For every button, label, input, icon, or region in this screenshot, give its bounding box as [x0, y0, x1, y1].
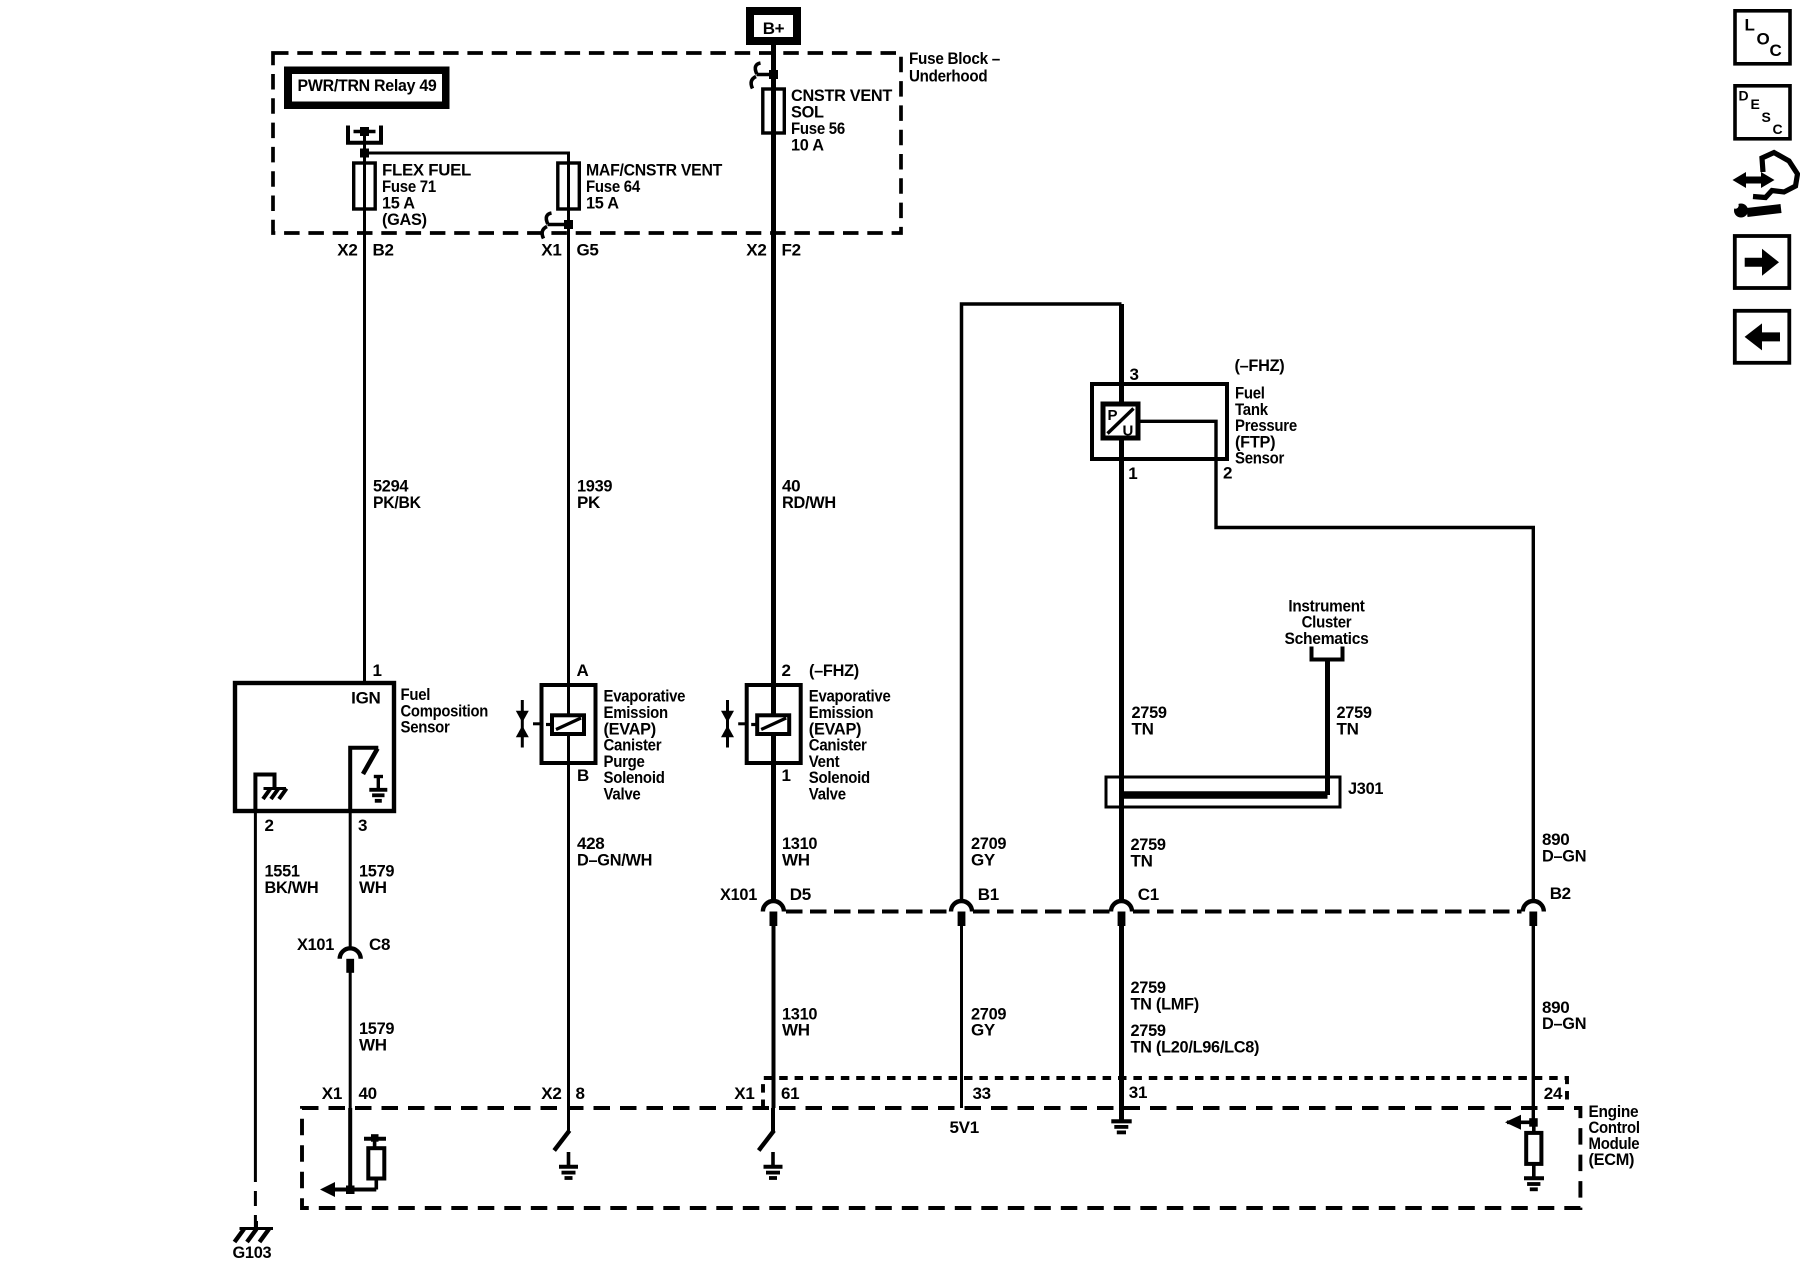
svg-text:RD/WH: RD/WH [782, 493, 836, 512]
vent valve symbol [721, 700, 747, 748]
wire 890 D-GN lower [1532, 926, 1535, 1122]
ECM pin X1 61 labels [734, 1084, 799, 1103]
wire 1551 BK/WH solid part [254, 811, 257, 1167]
svg-text:E: E [1751, 96, 1760, 112]
svg-text:31: 31 [1129, 1083, 1147, 1102]
svg-text:U: U [1123, 423, 1134, 440]
label 428 D-GN/WH [577, 834, 652, 870]
svg-text:Fuse Block –: Fuse Block – [909, 49, 1000, 68]
label EVAP vent [809, 687, 891, 804]
svg-text:WH: WH [782, 1021, 810, 1040]
Fuel Composition Sensor box [235, 683, 394, 811]
svg-text:C8: C8 [369, 935, 390, 954]
fuse F64 MAF/CNSTR VENT [558, 163, 580, 209]
fuse block underhood dashed box [273, 53, 901, 233]
wire 2709 GY lower [960, 926, 963, 1108]
svg-text:GY: GY [971, 851, 996, 870]
svg-text:40: 40 [359, 1084, 377, 1103]
svg-text:B: B [577, 766, 589, 785]
svg-text:D–GN/WH: D–GN/WH [577, 851, 652, 870]
svg-text:S: S [1762, 109, 1771, 125]
connector X2 B2 labels [337, 241, 393, 260]
PWR/TRN Relay 49 label box [284, 67, 450, 110]
label 2759 TN middle [1131, 835, 1166, 871]
splice pack J301 [1106, 777, 1340, 807]
svg-text:TN: TN [1132, 720, 1154, 739]
svg-text:1: 1 [1128, 464, 1137, 483]
svg-text:G103: G103 [233, 1243, 272, 1262]
svg-text:(–FHZ): (–FHZ) [1235, 356, 1285, 375]
connector B2 [1523, 884, 1571, 926]
label EVAP purge [604, 687, 686, 804]
wire 1579 WH lower [349, 971, 352, 1108]
svg-text:A: A [577, 661, 589, 680]
label 1310 WH upper [782, 834, 817, 870]
svg-text:TN (L20/L96/LC8): TN (L20/L96/LC8) [1131, 1038, 1260, 1057]
wire 1551 dashed part to G103 [254, 1167, 257, 1236]
label Fuel Composition Sensor [401, 685, 489, 737]
svg-text:C: C [1770, 41, 1782, 60]
label 2759 TN upper right [1337, 703, 1372, 739]
relay contact PWR/TRN Relay 49 [348, 126, 381, 143]
svg-text:TN: TN [1131, 852, 1153, 871]
connector X1 G5 labels [541, 241, 598, 260]
label Engine Control Module (ECM) [1589, 1102, 1640, 1169]
svg-text:(–FHZ): (–FHZ) [809, 661, 859, 680]
svg-text:8: 8 [576, 1084, 585, 1103]
G103 chassis ground [235, 1221, 274, 1242]
svg-text:15 A: 15 A [586, 194, 619, 213]
svg-text:J301: J301 [1348, 779, 1383, 798]
wire B+ to fuse 56 (40 RD/WH feed) [771, 45, 776, 89]
wire bus junction to fuse 64 [365, 153, 569, 163]
wire 428 D-GN/WH [567, 763, 570, 1108]
label 890 D-GN lower [1542, 998, 1586, 1033]
sensor internal earth ground [369, 777, 387, 801]
svg-text:Valve: Valve [809, 785, 846, 804]
svg-text:WH: WH [782, 851, 810, 870]
label fuse 71 [382, 161, 471, 230]
svg-text:B2: B2 [1550, 884, 1571, 903]
label Fuse Block - Underhood [909, 49, 1000, 86]
svg-text:X1: X1 [322, 1084, 342, 1103]
svg-text:IGN: IGN [351, 689, 380, 708]
connector B1 [951, 885, 999, 926]
wire 5V reference loop top [962, 304, 1122, 901]
label 1579 WH lower [359, 1019, 394, 1055]
svg-text:F2: F2 [782, 241, 801, 260]
sensor internal chassis ground [263, 789, 287, 800]
svg-text:B+: B+ [763, 19, 785, 38]
ECM pin X1 40 labels [322, 1084, 377, 1103]
EVAP canister purge solenoid valve box [542, 685, 596, 763]
svg-text:Underhood: Underhood [909, 67, 987, 86]
fuse F56 CNSTR VENT SOL [763, 89, 785, 133]
connector X2 F2 labels [746, 241, 800, 260]
svg-text:D–GN: D–GN [1542, 1014, 1586, 1033]
label 2709 GY lower [971, 1004, 1006, 1039]
wire 1939 PK [567, 233, 570, 685]
vent solenoid wire through box [771, 685, 776, 763]
FTP pin 2 wire inside box [1138, 421, 1216, 459]
svg-text:PK: PK [577, 493, 601, 512]
connector X101 C8 [297, 935, 390, 973]
svg-text:X2: X2 [337, 241, 357, 260]
label 1939 PK [577, 477, 612, 513]
svg-text:Schematics: Schematics [1285, 629, 1369, 648]
wire 1579 WH upper [349, 811, 352, 948]
svg-text:(ECM): (ECM) [1589, 1150, 1635, 1169]
label fuse 56 [791, 86, 893, 155]
svg-text:D5: D5 [790, 885, 811, 904]
wire 2759 TN from instrument cluster [1325, 660, 1330, 796]
svg-text:(GAS): (GAS) [382, 210, 427, 229]
svg-text:BK/WH: BK/WH [265, 878, 319, 897]
svg-text:B1: B1 [978, 885, 999, 904]
wire 40 RD/WH [771, 133, 776, 685]
svg-text:WH: WH [359, 1036, 387, 1055]
label 1551 BK/WH [265, 861, 319, 897]
svg-text:O: O [1757, 30, 1770, 49]
svg-text:2: 2 [265, 816, 274, 835]
arrowhead pin 40 [320, 1182, 335, 1197]
svg-text:X2: X2 [746, 241, 766, 260]
wire 2759 TN from FTP pin 1 [1119, 459, 1124, 901]
instrument cluster schematics reference [1285, 596, 1369, 659]
fuse block bus hook below fuse 64 [542, 213, 568, 239]
junction below fuse 64 [564, 220, 573, 229]
label 1579 WH upper [359, 861, 394, 897]
ECM internal pin 31 ground [1111, 1108, 1131, 1132]
vent solenoid coil [751, 715, 789, 734]
wire 890 D-GN from FTP pin 2 [1216, 459, 1533, 901]
svg-text:3: 3 [1130, 365, 1139, 384]
FTP sensor box [1092, 384, 1227, 459]
label Fuel Tank Pressure (FTP) Sensor [1235, 384, 1297, 468]
ECM internal pin 61 ground [759, 1108, 783, 1178]
next arrow icon box [1735, 236, 1790, 288]
svg-text:X1: X1 [541, 241, 561, 260]
ECM dashed box [302, 1108, 1580, 1208]
ECM internal pin 24 pullup [1505, 1115, 1544, 1190]
svg-text:TN: TN [1337, 720, 1359, 739]
junction pin 40 [346, 1186, 355, 1195]
purge solenoid wire through box [567, 685, 570, 763]
wire relay to junction [363, 132, 366, 164]
ECM internal pin 8 ground [554, 1108, 578, 1178]
label 2709 GY upper [971, 834, 1006, 870]
wire 1310 WH lower [772, 926, 776, 1108]
label 2759 TN (LMF) [1131, 978, 1199, 1014]
svg-text:D–GN: D–GN [1542, 847, 1586, 866]
label 2759 TN upper left [1132, 703, 1167, 739]
X101 dashed harness line [786, 910, 1522, 914]
svg-text:PK/BK: PK/BK [373, 493, 422, 512]
DESC icon box [1735, 86, 1790, 139]
B+ battery feed terminal [746, 7, 801, 45]
wire 5294 PK/BK [363, 233, 366, 683]
FTP pressure transducer P/U [1103, 404, 1138, 440]
svg-text:P: P [1108, 407, 1118, 424]
sensor internal switch pin 3 [350, 748, 378, 809]
resistor pin 40 [364, 1134, 386, 1189]
svg-text:3: 3 [358, 816, 367, 835]
svg-text:2: 2 [782, 661, 791, 680]
svg-text:C: C [1773, 121, 1783, 137]
junction below relay [360, 149, 369, 158]
svg-text:L: L [1745, 16, 1755, 35]
wire 1310 WH upper [771, 763, 776, 901]
ECM internal signal line pin 40 [324, 1188, 376, 1192]
LOC icon box [1735, 11, 1790, 64]
hyperlink navigation icon [1732, 153, 1797, 218]
label 2759 TN (L20/L96/LC8) [1131, 1021, 1260, 1057]
svg-text:61: 61 [781, 1084, 799, 1103]
connector C1 [1111, 885, 1159, 926]
ECM internal pin 40 wire [348, 1108, 352, 1193]
ECM pin X2 8 labels [541, 1084, 584, 1103]
svg-text:Sensor: Sensor [401, 718, 451, 737]
svg-text:X2: X2 [541, 1084, 561, 1103]
svg-text:1: 1 [373, 661, 382, 680]
fuse block bus hook at B+ feed [751, 63, 773, 89]
label 5294 PK/BK [373, 477, 422, 513]
svg-text:B2: B2 [373, 241, 394, 260]
wire fuse 64 to connector G5 [567, 209, 570, 233]
svg-text:5V1: 5V1 [950, 1118, 979, 1137]
svg-text:2: 2 [1223, 464, 1232, 483]
svg-text:Sensor: Sensor [1235, 449, 1285, 468]
svg-text:24: 24 [1544, 1084, 1563, 1103]
sensor internal wire pin 2 to chassis ground [255, 775, 274, 810]
svg-text:X101: X101 [720, 885, 757, 904]
label 40 RD/WH [782, 477, 836, 513]
svg-text:C1: C1 [1138, 885, 1159, 904]
EVAP canister vent solenoid valve box [747, 685, 801, 763]
label 1310 WH lower [782, 1004, 817, 1039]
svg-text:GY: GY [971, 1021, 996, 1040]
label fuse 64 [586, 161, 723, 213]
junction at B+ feed [769, 70, 778, 79]
FTP wire inside box [1119, 384, 1124, 459]
wire FTP pin 3 [1119, 304, 1124, 404]
svg-text:PWR/TRN Relay 49: PWR/TRN Relay 49 [298, 76, 437, 95]
ECM connector dotted outline [763, 1078, 1567, 1108]
fuse F71 FLEX FUEL [354, 163, 376, 209]
svg-text:X101: X101 [297, 935, 334, 954]
back arrow icon box [1735, 311, 1790, 363]
svg-text:D: D [1739, 88, 1749, 104]
svg-text:WH: WH [359, 878, 387, 897]
svg-text:TN (LMF): TN (LMF) [1131, 995, 1199, 1014]
svg-text:X1: X1 [734, 1084, 754, 1103]
purge valve symbol [516, 700, 542, 748]
svg-text:1: 1 [782, 766, 791, 785]
connector X101 D5 [720, 885, 811, 926]
svg-text:Valve: Valve [604, 785, 641, 804]
wire fuse 71 to connector B2 [363, 209, 366, 233]
label 890 D-GN upper [1542, 830, 1586, 866]
wire 2759 TN lower [1119, 926, 1124, 1108]
svg-text:10 A: 10 A [791, 136, 824, 155]
svg-text:G5: G5 [577, 241, 599, 260]
purge solenoid coil [546, 715, 584, 734]
svg-text:33: 33 [973, 1084, 991, 1103]
